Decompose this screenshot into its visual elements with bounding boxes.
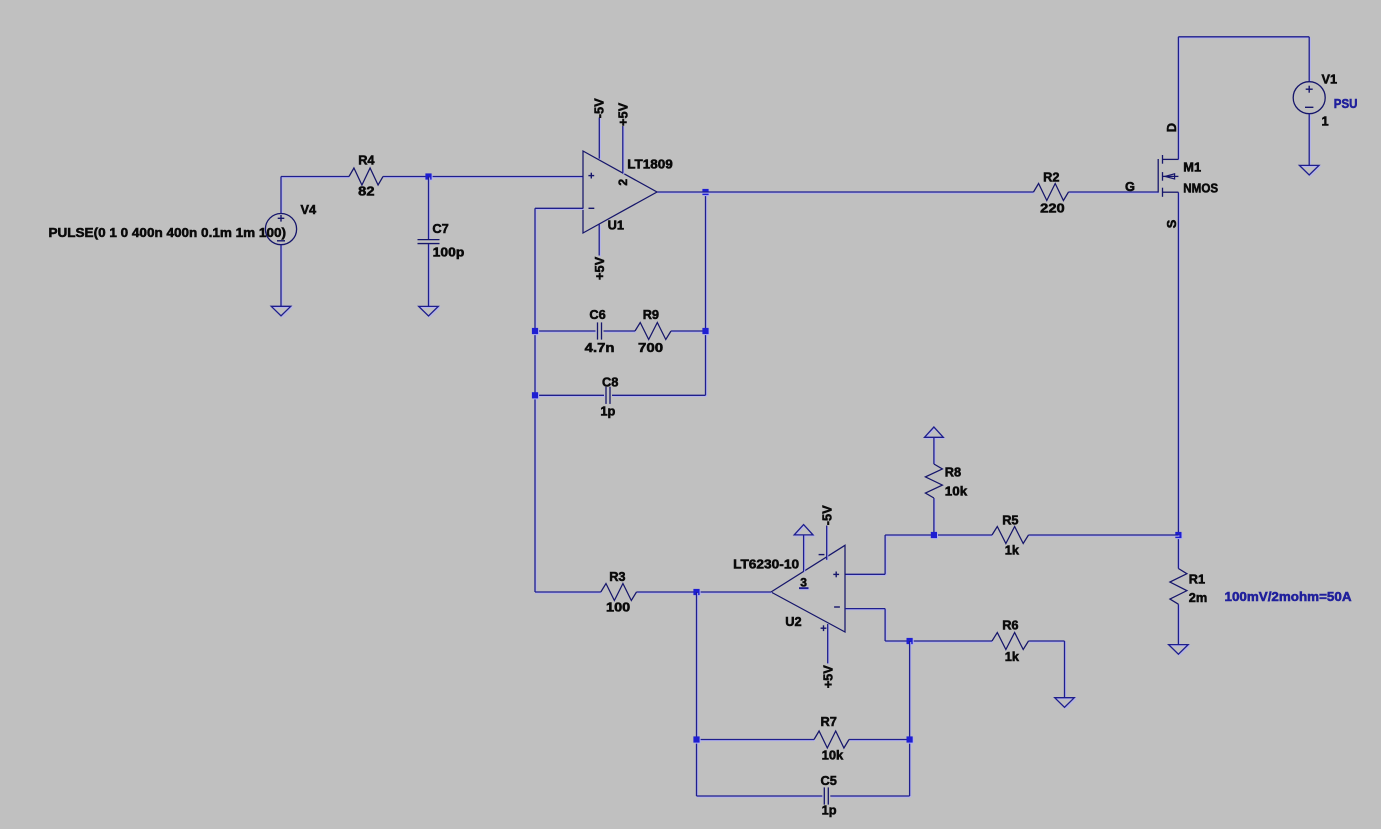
svg-text:1: 1 [1322, 114, 1329, 129]
svg-text:1p: 1p [600, 404, 615, 419]
svg-text:R1: R1 [1189, 572, 1205, 587]
svg-text:100p: 100p [433, 245, 465, 260]
svg-text:D: D [1164, 123, 1179, 132]
svg-text:+5V: +5V [820, 665, 835, 689]
svg-text:U2: U2 [785, 614, 801, 629]
svg-text:C7: C7 [432, 221, 448, 236]
svg-text:PULSE(0 1 0 400n 400n 0.1m 1m: PULSE(0 1 0 400n 400n 0.1m 1m 100) [49, 225, 287, 240]
svg-text:10k: 10k [945, 483, 968, 498]
svg-text:82: 82 [358, 183, 374, 198]
svg-text:S: S [1164, 219, 1179, 228]
svg-text:2: 2 [616, 179, 630, 186]
svg-text:R7: R7 [821, 714, 837, 729]
svg-text:U1: U1 [608, 218, 624, 233]
svg-text:G: G [1125, 179, 1135, 194]
svg-text:R8: R8 [945, 465, 961, 480]
svg-text:R9: R9 [643, 307, 659, 322]
svg-text:100: 100 [606, 599, 630, 614]
svg-text:C8: C8 [602, 374, 618, 389]
svg-text:3: 3 [800, 575, 807, 589]
svg-text:R3: R3 [609, 569, 625, 584]
svg-text:C5: C5 [821, 773, 837, 788]
svg-text:4.7n: 4.7n [585, 340, 615, 355]
svg-text:700: 700 [638, 340, 663, 355]
svg-text:1k: 1k [1005, 649, 1020, 664]
svg-text:10k: 10k [822, 748, 845, 763]
svg-text:LT6230-10: LT6230-10 [733, 557, 799, 572]
svg-text:100mV/2mohm=50A: 100mV/2mohm=50A [1225, 589, 1352, 604]
svg-text:-5V: -5V [819, 505, 834, 525]
svg-text:V1: V1 [1322, 72, 1338, 87]
svg-text:+5V: +5V [592, 256, 607, 280]
svg-text:V4: V4 [301, 202, 318, 217]
svg-text:M1: M1 [1183, 160, 1201, 175]
svg-text:1k: 1k [1005, 542, 1020, 557]
svg-text:PSU: PSU [1334, 96, 1358, 111]
svg-text:-5V: -5V [592, 98, 607, 118]
svg-text:2m: 2m [1189, 590, 1208, 605]
svg-text:C6: C6 [589, 307, 605, 322]
svg-text:220: 220 [1040, 201, 1065, 216]
svg-text:+5V: +5V [616, 102, 631, 126]
svg-text:1p: 1p [822, 803, 837, 818]
svg-text:R2: R2 [1043, 170, 1059, 185]
svg-text:R4: R4 [358, 153, 375, 168]
svg-text:LT1809: LT1809 [627, 156, 673, 171]
svg-text:R5: R5 [1002, 513, 1018, 528]
svg-text:NMOS: NMOS [1183, 180, 1218, 195]
svg-text:R6: R6 [1002, 618, 1018, 633]
